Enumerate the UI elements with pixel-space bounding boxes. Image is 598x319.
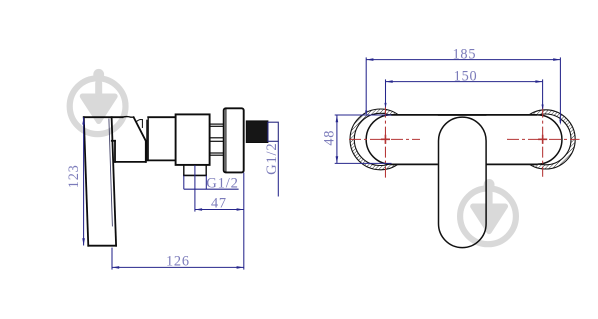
svg-text:G1/2: G1/2 (264, 143, 280, 175)
svg-text:126: 126 (166, 254, 190, 270)
svg-text:123: 123 (66, 164, 82, 188)
svg-text:G1/2: G1/2 (206, 176, 238, 192)
svg-text:47: 47 (211, 195, 227, 211)
svg-text:150: 150 (454, 68, 478, 84)
svg-text:185: 185 (452, 47, 476, 63)
svg-text:48: 48 (322, 130, 338, 146)
